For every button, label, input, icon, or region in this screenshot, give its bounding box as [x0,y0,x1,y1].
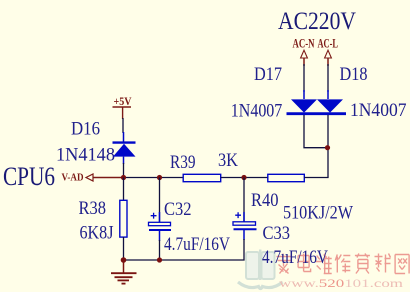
svg-text:510KJ/2W: 510KJ/2W [283,204,353,224]
svg-text:R40: R40 [251,191,279,211]
svg-text:3K: 3K [218,151,239,171]
svg-text:R39: R39 [170,153,196,173]
svg-text:1N4148: 1N4148 [56,146,115,166]
wire AC-L vertical [327,64,329,92]
capacitor C33 (electrolytic) [233,212,257,240]
wire rail right of R40 [304,177,328,179]
wire AC-N vertical [303,64,305,92]
ground [111,260,137,284]
wire R38 to bottom rail [123,237,125,260]
resistor R40 (horizontal) [268,174,305,181]
svg-text:4.7uF/16V: 4.7uF/16V [262,248,329,268]
svg-text:1N4007: 1N4007 [350,101,407,121]
wire below D18 down to rail [327,115,329,178]
wire D16 to rail [123,163,125,178]
wire rail to R38 [123,178,125,201]
power +5V bar [113,106,132,108]
port arrow AC-L [325,50,332,66]
wire C33 to bottom rail corner [124,239,245,260]
svg-text:D16: D16 [71,120,100,140]
svg-text:C32: C32 [164,200,192,220]
wire main rail left [124,177,185,179]
wire rail between R39 and R40 [221,177,268,179]
port arrow AC-N [301,50,308,66]
svg-text:C33: C33 [263,224,291,244]
svg-text:D18: D18 [340,65,368,85]
svg-text:AC-L: AC-L [318,37,339,51]
resistor R39 (horizontal) [183,174,221,181]
junction bottom rail / ground [121,257,127,263]
svg-text:+5V: +5V [114,96,133,108]
svg-text:AC220V: AC220V [278,8,356,35]
cathode bar shared D17 D18 [287,112,347,115]
junction rail / C32 [157,175,162,180]
wire rail to C32 [159,178,161,223]
svg-text:4.7uF/16V: 4.7uF/16V [164,235,231,255]
port arrow V-AD (points left) [86,174,93,181]
wire rail to C33 [243,178,245,223]
wire +5V to D16 [122,118,124,133]
resistor R38 (vertical) [120,200,127,237]
wire C32 to bottom rail [159,240,161,260]
svg-text:CPU6: CPU6 [3,162,55,191]
junction rail / D16 / R38 [121,175,126,180]
svg-text:1N4007: 1N4007 [231,101,282,121]
junction bottom rail / C32 [157,257,162,262]
watermark logo (open book) [238,250,283,289]
junction diode output [325,145,330,150]
svg-text:www.520101.com: www.520101.com [279,276,404,290]
wire below D17 (L-shape to junction) [304,115,328,148]
svg-text:AC-N: AC-N [293,37,315,51]
diode D17 [291,90,317,113]
wire V-AD stem (maroon) [93,177,124,179]
diode D18 [317,90,343,113]
svg-text:D17: D17 [254,65,282,85]
svg-text:R38: R38 [79,199,107,219]
capacitor C32 (electrolytic) [149,212,172,241]
watermark text 家电维修资料网 (pseudo glyphs) [277,254,410,274]
diode D16 (pointing up) [113,132,136,164]
svg-text:V-AD: V-AD [62,172,84,184]
power +5V lead [122,107,124,119]
junction rail / C33 [241,175,246,180]
svg-text:6K8J: 6K8J [80,224,114,244]
